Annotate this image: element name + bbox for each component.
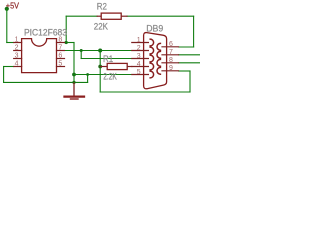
- connector DB9 pin 2 stub: [132, 50, 149, 52]
- resistor R2 right lead: [121, 15, 127, 17]
- connector DB9 pin 9 stub: [162, 70, 179, 72]
- node junction at 81,50.5: [80, 49, 83, 52]
- svg-text:7: 7: [169, 49, 173, 56]
- connector DB9 pin 3 stub: [132, 58, 149, 60]
- ground symbol stub: [73, 83, 75, 96]
- wire bottom horizontal to DB9 pin9: [100, 91, 190, 93]
- resistor R1 left lead: [100, 66, 107, 68]
- wire DB9 pin7 net to edge: [179, 54, 201, 56]
- wire IC pin7 net horizontal: [65, 50, 132, 52]
- svg-text:3: 3: [137, 53, 141, 60]
- ground symbol bar: [65, 95, 85, 97]
- svg-text:1: 1: [15, 37, 19, 44]
- wire +5V vertical to IC pin1 row: [6, 9, 8, 43]
- wire vertical x100 signal: [99, 51, 101, 93]
- wire DB9 pin9 horizontal: [179, 70, 191, 72]
- wire vertical x87.5 link: [87, 75, 89, 83]
- svg-text:1: 1: [137, 37, 141, 44]
- wire +5V horizontal to IC pin1: [7, 42, 14, 44]
- svg-text:8: 8: [58, 37, 62, 44]
- connector DB9 pin 5 stub: [132, 74, 149, 76]
- wire GND main vertical: [73, 43, 75, 84]
- svg-text:3: 3: [15, 53, 19, 60]
- node junction at 74,74.5: [72, 73, 76, 77]
- svg-text:4: 4: [137, 61, 141, 68]
- IC U1 pin 3 stub: [14, 58, 22, 60]
- svg-text:22K: 22K: [94, 22, 108, 32]
- connector DB9 pin 8 stub: [162, 62, 179, 64]
- wire R2 right horizontal: [127, 15, 194, 17]
- connector DB9 contact 2: [150, 47, 153, 54]
- wire DB9 pin6 stub extension: [179, 46, 194, 48]
- resistor R1 right lead: [127, 66, 132, 68]
- node +5V junction dot: [5, 7, 9, 11]
- ground symbol small bar: [71, 98, 79, 100]
- svg-text:8: 8: [169, 57, 173, 64]
- IC U1 pin 5 stub: [57, 66, 65, 68]
- svg-text:7: 7: [58, 45, 62, 52]
- connector DB9 contact 1: [150, 39, 153, 46]
- connector DB9 contact 8: [157, 59, 160, 66]
- wire DB9 pin3 net horizontal: [81, 58, 132, 60]
- wire IC pin4 horizontal: [4, 66, 14, 68]
- svg-text:2.2K: 2.2K: [103, 71, 117, 81]
- resistor R1 body: [107, 63, 127, 69]
- connector DB9 outline: [144, 33, 167, 89]
- svg-text:2: 2: [137, 45, 141, 52]
- svg-text:6: 6: [58, 53, 62, 60]
- wire vertical x190 up to pin9: [189, 71, 191, 92]
- IC U1 pin 2 stub: [14, 50, 22, 52]
- connector DB9 pin 1 stub: [132, 42, 149, 44]
- node junction at 87.5,74.5: [86, 73, 89, 76]
- node junction at 74,82.4: [72, 81, 75, 84]
- resistor R2 body: [101, 13, 121, 19]
- wire vertical x81 drop: [80, 51, 82, 59]
- connector DB9 contact 4: [150, 63, 153, 70]
- IC U1 pin 4 stub: [14, 66, 22, 68]
- connector DB9 pin 6 stub: [162, 46, 179, 48]
- wire IC pin8 to GND vertical: [65, 42, 75, 44]
- wire R2 left vertical: [65, 16, 67, 42]
- wire left vertical down: [3, 67, 5, 83]
- svg-text:R2: R2: [97, 1, 107, 11]
- svg-text:R1: R1: [103, 54, 113, 64]
- node junction at 100,66.5 R1 left: [98, 65, 102, 69]
- wire DB9 pin5 horizontal GND: [74, 74, 132, 76]
- svg-text:6: 6: [169, 41, 173, 48]
- wire vertical x193.5 to DB9 pin6: [193, 16, 195, 47]
- connector DB9 contact 6: [157, 43, 160, 50]
- svg-text:5: 5: [137, 69, 141, 76]
- svg-text:2: 2: [15, 45, 19, 52]
- connector DB9 contact 7: [157, 51, 160, 58]
- svg-text:9: 9: [169, 65, 173, 72]
- connector DB9 contact 5: [150, 71, 153, 78]
- svg-text:4: 4: [15, 61, 19, 68]
- IC U1 pin 7 stub: [57, 50, 65, 52]
- connector DB9 pin 4 stub: [132, 66, 149, 68]
- IC U1 pin 1 stub: [14, 42, 22, 44]
- node junction at 66,42.5: [65, 41, 68, 44]
- svg-text:5: 5: [58, 61, 62, 68]
- IC U1 PIC12F683 body: [22, 39, 57, 73]
- connector DB9 contact 9: [157, 67, 160, 74]
- connector DB9 contact 3: [150, 55, 153, 62]
- connector DB9 pin 7 stub: [162, 54, 179, 56]
- resistor R2 left lead: [97, 15, 101, 17]
- svg-text:DB9: DB9: [146, 24, 163, 34]
- wire DB9 pin8 net to edge: [179, 62, 201, 64]
- wire R2 left horizontal: [66, 15, 97, 17]
- IC U1 pin 8 stub: [57, 42, 65, 44]
- wire bottom horizontal GND net: [4, 81, 88, 83]
- IC U1 pin 6 stub: [57, 58, 65, 60]
- node junction at 100,50.5: [98, 49, 102, 53]
